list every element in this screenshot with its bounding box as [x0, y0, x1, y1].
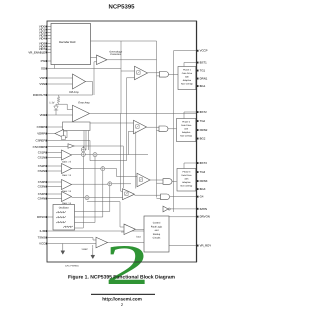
wire gate bus to AND4 — [157, 197, 161, 199]
svg-text:CSCOMP: CSCOMP — [33, 146, 46, 149]
wire PWM2 to AND2 — [147, 126, 160, 128]
pin OD (left) — [41, 67, 48, 70]
pin TSNS (left) — [38, 236, 48, 239]
op-amp CSA3 current sense — [62, 180, 72, 190]
wire PWM1 to AND1 — [148, 72, 160, 74]
svg-text:Non-overlap: Non-overlap — [181, 185, 193, 187]
pin BG2 (right) — [197, 137, 206, 140]
summing node S4 — [108, 182, 112, 186]
svg-text:Gate Drive: Gate Drive — [181, 124, 191, 126]
svg-text:Gate Drive: Gate Drive — [182, 72, 192, 74]
svg-text:with: with — [184, 128, 188, 130]
AND gate phase 2 — [159, 126, 168, 132]
wire CS4P to CSA — [47, 193, 62, 195]
diode D clamp — [54, 106, 58, 110]
wire VID1 to DAC — [47, 29, 51, 31]
pin ILIM (left) — [40, 230, 48, 233]
svg-text:Circuits: Circuits — [153, 237, 161, 240]
wire phase2 to BG2 — [195, 138, 198, 140]
wire CSCOMP bus — [74, 145, 123, 147]
wire resistor to diode — [55, 104, 57, 106]
wire buffer to IMON pin — [170, 208, 196, 210]
pin BST1 (right) — [197, 61, 207, 64]
wire PWM2 side vertical — [135, 132, 137, 189]
pin VID1 (left) — [39, 28, 48, 31]
svg-text:BG2: BG2 — [200, 137, 206, 140]
wire VDRP buffer input stub — [64, 130, 68, 132]
wire control to VR_RDY pin — [169, 245, 197, 247]
wire phase1 to BG1 — [195, 85, 198, 87]
wire phase1 to TG1 — [195, 70, 198, 72]
svg-text:Non-overlap: Non-overlap — [181, 83, 193, 85]
wire TSNS run — [47, 237, 93, 239]
wire network to summer 1 — [83, 131, 85, 150]
svg-text:Iout: Iout — [136, 236, 140, 239]
wire summer 4 down to ramp 1 — [109, 186, 111, 212]
pin CS4N (left) — [38, 197, 48, 200]
wire summer3 to comparator3 input — [105, 169, 137, 177]
block phase 2 gate driver — [177, 119, 196, 142]
wire CS3N to CSA — [47, 186, 62, 188]
wire PWM4 to AND4 — [135, 194, 161, 196]
wire CSREF reference bus — [90, 160, 127, 162]
wire reference up to PWM1 — [126, 78, 128, 161]
wire gate bus to AND1 — [157, 75, 160, 77]
pin BST2 (right) — [197, 111, 207, 114]
wire ramp 2 output — [75, 216, 103, 218]
wire phase2 to BST2 — [184, 112, 197, 119]
wire VDRP input vertical — [66, 131, 68, 138]
op-amp VDRP buffer — [55, 130, 64, 138]
wire VID5 to DAC — [47, 42, 51, 44]
svg-text:BST1: BST1 — [200, 61, 207, 64]
op-amp CSA2 current sense — [62, 164, 72, 174]
comparator PWM3 — [137, 173, 150, 187]
pin VCCP (right) — [197, 49, 208, 52]
pin VID3 (left) — [39, 34, 48, 37]
IC outer boundary box — [47, 21, 197, 262]
comparator PWM4 — [123, 189, 135, 200]
svg-text:CS4N: CS4N — [38, 197, 46, 200]
pin PSI (left) — [41, 60, 48, 63]
wire network vertical 2 — [85, 131, 87, 151]
wire to PWM1 - input — [127, 77, 135, 79]
wire ROSC to oscillator — [47, 216, 53, 218]
summing node S3 — [101, 167, 105, 171]
pin VID5 (left) — [39, 42, 48, 45]
svg-text:BG1: BG1 — [200, 85, 206, 88]
comparator PWM1 — [135, 66, 148, 80]
pin DRN1 (right) — [197, 77, 208, 80]
wire OVP output to gate bus — [107, 59, 157, 61]
buffer driver enable — [163, 206, 168, 212]
svg-text:DAC PWRGD: DAC PWRGD — [65, 265, 79, 267]
wire OVP gate vertical bus — [156, 41, 158, 198]
svg-text:VID1: VID1 — [39, 28, 45, 31]
wire VFB to error amp — [47, 114, 73, 116]
svg-text:TG2: TG2 — [200, 120, 206, 123]
wire CSREF run — [47, 140, 90, 142]
wire DAC ref to PWM1 + input — [121, 70, 135, 72]
svg-text:with: with — [185, 76, 189, 78]
sawtooth wave symbol 2 — [56, 217, 66, 219]
pin CS4P (left) — [38, 193, 48, 196]
wire AND1 to phase1 driver — [169, 73, 179, 75]
wire total current down to Iout amp — [119, 202, 121, 227]
pin TG1 (right) — [197, 69, 206, 72]
wire summer chain down to ramp 4 — [82, 156, 84, 228]
svg-text:VCC: VCC — [39, 242, 45, 245]
wire CSA2 output to summer 3 — [72, 168, 103, 170]
wire VID3 to DAC — [47, 35, 51, 37]
wire clamp node run — [56, 103, 67, 105]
ground reference arrow (left) — [61, 244, 65, 255]
wire diff amp output to DIFFOUT — [86, 82, 93, 96]
pin VSN (left) — [39, 83, 47, 86]
pin DRN3 (right) — [197, 180, 208, 183]
svg-text:Fault Logic: Fault Logic — [151, 225, 162, 228]
footer rule — [91, 294, 155, 295]
comparator PWM2 — [134, 120, 147, 134]
svg-text:Phase 3: Phase 3 — [182, 171, 190, 173]
wire to PWM2 - input — [128, 131, 133, 133]
AND gate phase 1 — [160, 72, 169, 78]
wire phase2 to TG2 — [195, 120, 198, 122]
svg-text:DRN2: DRN2 — [200, 129, 208, 132]
svg-text:2: 2 — [105, 234, 150, 297]
svg-text:Adaptive: Adaptive — [182, 181, 190, 183]
wire to PWM4 + input — [121, 190, 123, 192]
pin VDRP (left) — [37, 132, 47, 135]
pin VID6 (left) — [39, 45, 48, 48]
pin BG3 (right) — [197, 188, 206, 191]
wire TSNS jog — [92, 238, 94, 241]
wire OD run — [47, 68, 121, 70]
svg-text:http://onsemi.com: http://onsemi.com — [102, 297, 142, 302]
wire CSCOMP to buffer — [47, 146, 68, 148]
svg-text:Oscillator: Oscillator — [59, 206, 69, 209]
wire network vertical 3 — [88, 131, 90, 151]
block control fault logic and startup — [144, 216, 169, 252]
svg-text:VID0: VID0 — [39, 25, 45, 28]
svg-text:1.65V: 1.65V — [81, 248, 87, 251]
block phase 1 gate driver — [178, 67, 196, 90]
svg-text:VID4: VID4 — [39, 37, 45, 40]
wire phase3 to BST3 — [184, 163, 197, 169]
svg-text:DRN1: DRN1 — [200, 77, 208, 80]
svg-text:CS3N: CS3N — [38, 185, 46, 188]
wire OVP lower input stub — [94, 61, 97, 63]
svg-text:CS2N: CS2N — [38, 170, 46, 173]
pin TG3 (right) — [197, 171, 206, 174]
svg-text:Gain = 6: Gain = 6 — [62, 161, 71, 164]
svg-text:DRN3: DRN3 — [200, 180, 208, 183]
summing node S2 — [93, 153, 97, 157]
wire PWM3 to AND3 — [150, 179, 163, 181]
svg-text:Gate Drive: Gate Drive — [181, 174, 191, 176]
summing node S1B — [81, 152, 85, 156]
wire PSI to DAC — [47, 60, 51, 62]
wire CS2N to CSA — [47, 170, 62, 172]
wire OD stub to DAC — [54, 65, 56, 69]
wire DAC reference vertical — [120, 41, 122, 114]
svg-text:VDRP: VDRP — [37, 132, 45, 135]
summing node S1A — [81, 148, 85, 152]
wire summer4 to comparator3 input — [112, 183, 131, 185]
svg-text:BST3: BST3 — [200, 162, 207, 165]
pin DRN2 (right) — [197, 129, 208, 132]
pin CS2N (left) — [38, 170, 48, 173]
wire Iout input upper stub — [120, 226, 124, 228]
wire bus down to PWM4 — [122, 146, 124, 188]
wire gate bus to AND3 — [157, 182, 164, 184]
wire control to DRVON pin — [169, 216, 197, 218]
wire CS4N to CSA — [47, 198, 62, 200]
pin VCC (left) — [39, 242, 47, 245]
wire AND2 to phase2 driver — [168, 128, 177, 130]
svg-text:Protection: Protection — [110, 53, 121, 56]
svg-text:Startup: Startup — [153, 233, 161, 236]
pin TG2 (right) — [197, 120, 206, 123]
pin CSREF (left) — [36, 139, 48, 142]
svg-text:2: 2 — [121, 303, 123, 307]
wire VID0 to DAC — [47, 26, 51, 28]
pin CSCOMP (left) — [33, 146, 48, 149]
pin VR_ENABLE (left) — [28, 51, 47, 54]
op-amp CSCOMP buffer — [68, 144, 74, 149]
resistor R feedback (1.1V clamp) — [57, 95, 60, 104]
wire right border emphasis — [196, 21, 198, 262]
wire to error amp + input — [67, 109, 72, 111]
wire Iout input lower stub — [121, 231, 124, 233]
wire phase1 to BST1 — [184, 63, 197, 67]
wire DAC to OVP upper input — [91, 57, 97, 59]
svg-text:NCP5395: NCP5395 — [108, 4, 134, 11]
svg-text:VFB: VFB — [40, 114, 46, 117]
AND gate phase 3 — [163, 179, 172, 185]
svg-text:ROSC: ROSC — [37, 216, 45, 219]
wire CS3P to CSA — [47, 181, 62, 183]
wire VCCP to rail — [174, 50, 197, 52]
current reference arrow — [91, 248, 95, 259]
wire CSA3 output to summer 4 — [72, 183, 110, 185]
svg-text:Error Amp: Error Amp — [78, 102, 89, 105]
wire phase1 to DRN1 — [195, 78, 198, 80]
svg-text:BST2: BST2 — [200, 111, 207, 114]
wire VCC run — [47, 243, 96, 245]
pin VSP (left) — [39, 77, 47, 80]
wire CSA1 output to summers — [72, 153, 96, 155]
wire switch to vertical — [65, 137, 67, 139]
svg-text:CS2P: CS2P — [38, 165, 46, 168]
svg-text:Adaptive: Adaptive — [183, 79, 191, 81]
svg-text:Gain = 6: Gain = 6 — [62, 174, 71, 177]
svg-text:DRVON: DRVON — [200, 215, 210, 218]
pin CS2P (left) — [38, 165, 48, 168]
wire CS1N to CSA — [47, 157, 62, 159]
svg-text:PSI: PSI — [41, 60, 46, 63]
svg-text:with: with — [184, 178, 188, 180]
wire summer 3 down to ramp 2 — [102, 171, 104, 217]
svg-text:and: and — [155, 229, 159, 232]
pin CS1N (left) — [38, 156, 48, 159]
wire phase3 to DRN3 — [195, 180, 198, 182]
pin VID2 (left) — [39, 31, 48, 34]
wire COMP bus tap — [120, 114, 122, 124]
wire CSREF down — [89, 141, 91, 161]
svg-text:TG3: TG3 — [200, 171, 206, 174]
wire summer 2 down to ramp 3 — [94, 157, 96, 223]
wire clamp node down — [66, 104, 68, 109]
pin CS3N (left) — [38, 185, 48, 188]
svg-text:CS4P: CS4P — [38, 193, 46, 196]
wire phase3 to TG3 — [195, 171, 198, 173]
wire ramp 3 output — [75, 222, 96, 224]
wire COMP bus to PWM comparators — [90, 113, 197, 115]
wire CSREF sense up to OVP — [93, 62, 95, 95]
block phase 3 gate driver — [177, 169, 196, 192]
wire VSN to diff amp — [47, 83, 73, 85]
op-amp Iout monitor — [124, 224, 136, 235]
pin BST3 (right) — [197, 162, 207, 165]
svg-text:Adaptive: Adaptive — [182, 131, 190, 133]
svg-text:DIFFOUT: DIFFOUT — [33, 94, 45, 97]
op-amp CSA1 current sense — [62, 150, 72, 160]
svg-text:VSP: VSP — [39, 77, 45, 80]
svg-text:TG1: TG1 — [200, 69, 206, 72]
svg-text:VID7: VID7 — [39, 48, 45, 51]
svg-text:Non-overlap: Non-overlap — [180, 135, 192, 137]
wire VID2 to DAC — [47, 32, 51, 34]
comparator overvoltage protection — [97, 55, 108, 65]
wire diode to VFB line — [55, 110, 57, 115]
wire VDRP from buffer — [47, 133, 55, 135]
svg-text:Overvoltage: Overvoltage — [109, 50, 122, 53]
wire VID4 to DAC — [47, 38, 51, 40]
comparator UVLO — [96, 237, 108, 248]
pin BG1 (right) — [197, 85, 206, 88]
svg-text:Control: Control — [153, 222, 160, 225]
svg-text:IMON: IMON — [200, 208, 207, 211]
switch S VDRP — [62, 136, 66, 140]
wire tap up to PWM2 — [127, 132, 129, 155]
svg-text:1.1V: 1.1V — [49, 101, 54, 104]
op-amp differential amplifier — [73, 74, 86, 89]
wire VR_ENABLE to DAC — [47, 51, 51, 53]
svg-text:Figure 1. NCP5395 Functional B: Figure 1. NCP5395 Functional Block Diagr… — [68, 275, 175, 281]
svg-text:ILIM: ILIM — [40, 230, 46, 233]
wire tap to summer chain — [82, 146, 84, 148]
wire VCCP vertical rail — [173, 51, 175, 212]
svg-text:CS1N: CS1N — [38, 156, 46, 159]
wire ramp 4 output — [75, 227, 84, 229]
wire phase3 to BG3 — [195, 188, 198, 190]
pin DIFFOUT (left) — [33, 94, 48, 97]
pin VID4 (left) — [39, 37, 48, 40]
wire COMP to network — [47, 126, 63, 128]
sawtooth wave symbol 4 — [63, 226, 73, 228]
svg-text:CSREF: CSREF — [36, 139, 46, 142]
svg-text:VSN: VSN — [39, 83, 45, 86]
pin CS1P (left) — [38, 151, 48, 154]
wire UVLO ref stub — [92, 245, 94, 248]
wire VSP to diff amp — [47, 77, 73, 79]
wire Iout to control logic — [136, 228, 145, 230]
wire ILIM run — [47, 230, 144, 232]
wire VID7 to DAC — [47, 48, 51, 50]
pin VID0 (left) — [39, 25, 48, 28]
wire CSA4 output to summer 5 — [72, 196, 88, 198]
pin VID7 (left) — [39, 48, 48, 51]
pin DRVON (right) — [197, 215, 210, 218]
svg-text:TSNS: TSNS — [38, 236, 46, 239]
svg-text:CS3P: CS3P — [38, 181, 46, 184]
wire VID6 to DAC — [47, 45, 51, 47]
block oscillator — [53, 205, 75, 231]
op-amp error amplifier — [73, 105, 90, 122]
svg-text:VR_ENABLE: VR_ENABLE — [28, 51, 45, 54]
pin VFB (left) — [40, 114, 48, 117]
wire summer2 output bus — [97, 154, 148, 156]
svg-text:VCCP: VCCP — [200, 49, 208, 52]
pin CS3P (left) — [38, 181, 48, 184]
wire DIFFOUT run — [47, 94, 93, 96]
pin VR_RDY (right) — [197, 244, 212, 247]
pin COMP (left) — [37, 126, 48, 129]
wire total current line — [87, 201, 120, 203]
svg-text:Diff Amp: Diff Amp — [69, 91, 79, 94]
watermark large green digit 2 — [105, 234, 150, 297]
op-amp CSA4 current sense — [62, 192, 72, 202]
sawtooth wave symbol 3 — [56, 222, 66, 224]
svg-text:VR_RDY: VR_RDY — [200, 244, 212, 247]
wire TSNS into UVLO — [93, 239, 96, 241]
svg-text:OD: OD — [41, 67, 45, 70]
svg-text:COMP: COMP — [37, 126, 46, 129]
svg-text:VID3: VID3 — [39, 34, 45, 37]
wire phase2 to DRN2 — [195, 129, 198, 131]
svg-text:Decoder DAC: Decoder DAC — [59, 41, 76, 44]
pin IMON (right) — [197, 208, 207, 211]
sawtooth wave symbol 1 — [56, 212, 66, 214]
svg-text:BG3: BG3 — [200, 188, 206, 191]
wire summer5 to comparator4 input — [89, 197, 125, 199]
wire AND4 to G4 pin — [170, 196, 197, 198]
pin ROSC (left) — [37, 216, 48, 219]
pin G4 (right) — [197, 195, 204, 198]
wire comp bus down to PWM4 — [120, 123, 122, 191]
svg-text:G4: G4 — [200, 195, 204, 198]
wire CS2P to CSA — [47, 165, 62, 167]
wire CS1P to CSA — [47, 152, 62, 154]
block compensation network — [63, 122, 91, 131]
summing node S5 — [85, 196, 89, 200]
svg-text:Phase 2: Phase 2 — [182, 121, 190, 123]
wire gate bus to AND2 — [157, 129, 160, 131]
wire UVLO to control logic — [108, 242, 145, 244]
svg-text:VID2: VID2 — [39, 31, 45, 34]
AND gate phase 4 — [161, 194, 170, 200]
wire AND3 to phase3 driver — [172, 181, 177, 183]
wire network to PWM2 + input — [90, 122, 134, 124]
svg-text:Phase 1: Phase 1 — [183, 69, 191, 71]
wire DAC top output bus — [91, 40, 157, 42]
svg-text:CS1P: CS1P — [38, 151, 46, 154]
wire ramp 1 output — [75, 211, 110, 213]
block Decoder DAC — [51, 24, 91, 65]
